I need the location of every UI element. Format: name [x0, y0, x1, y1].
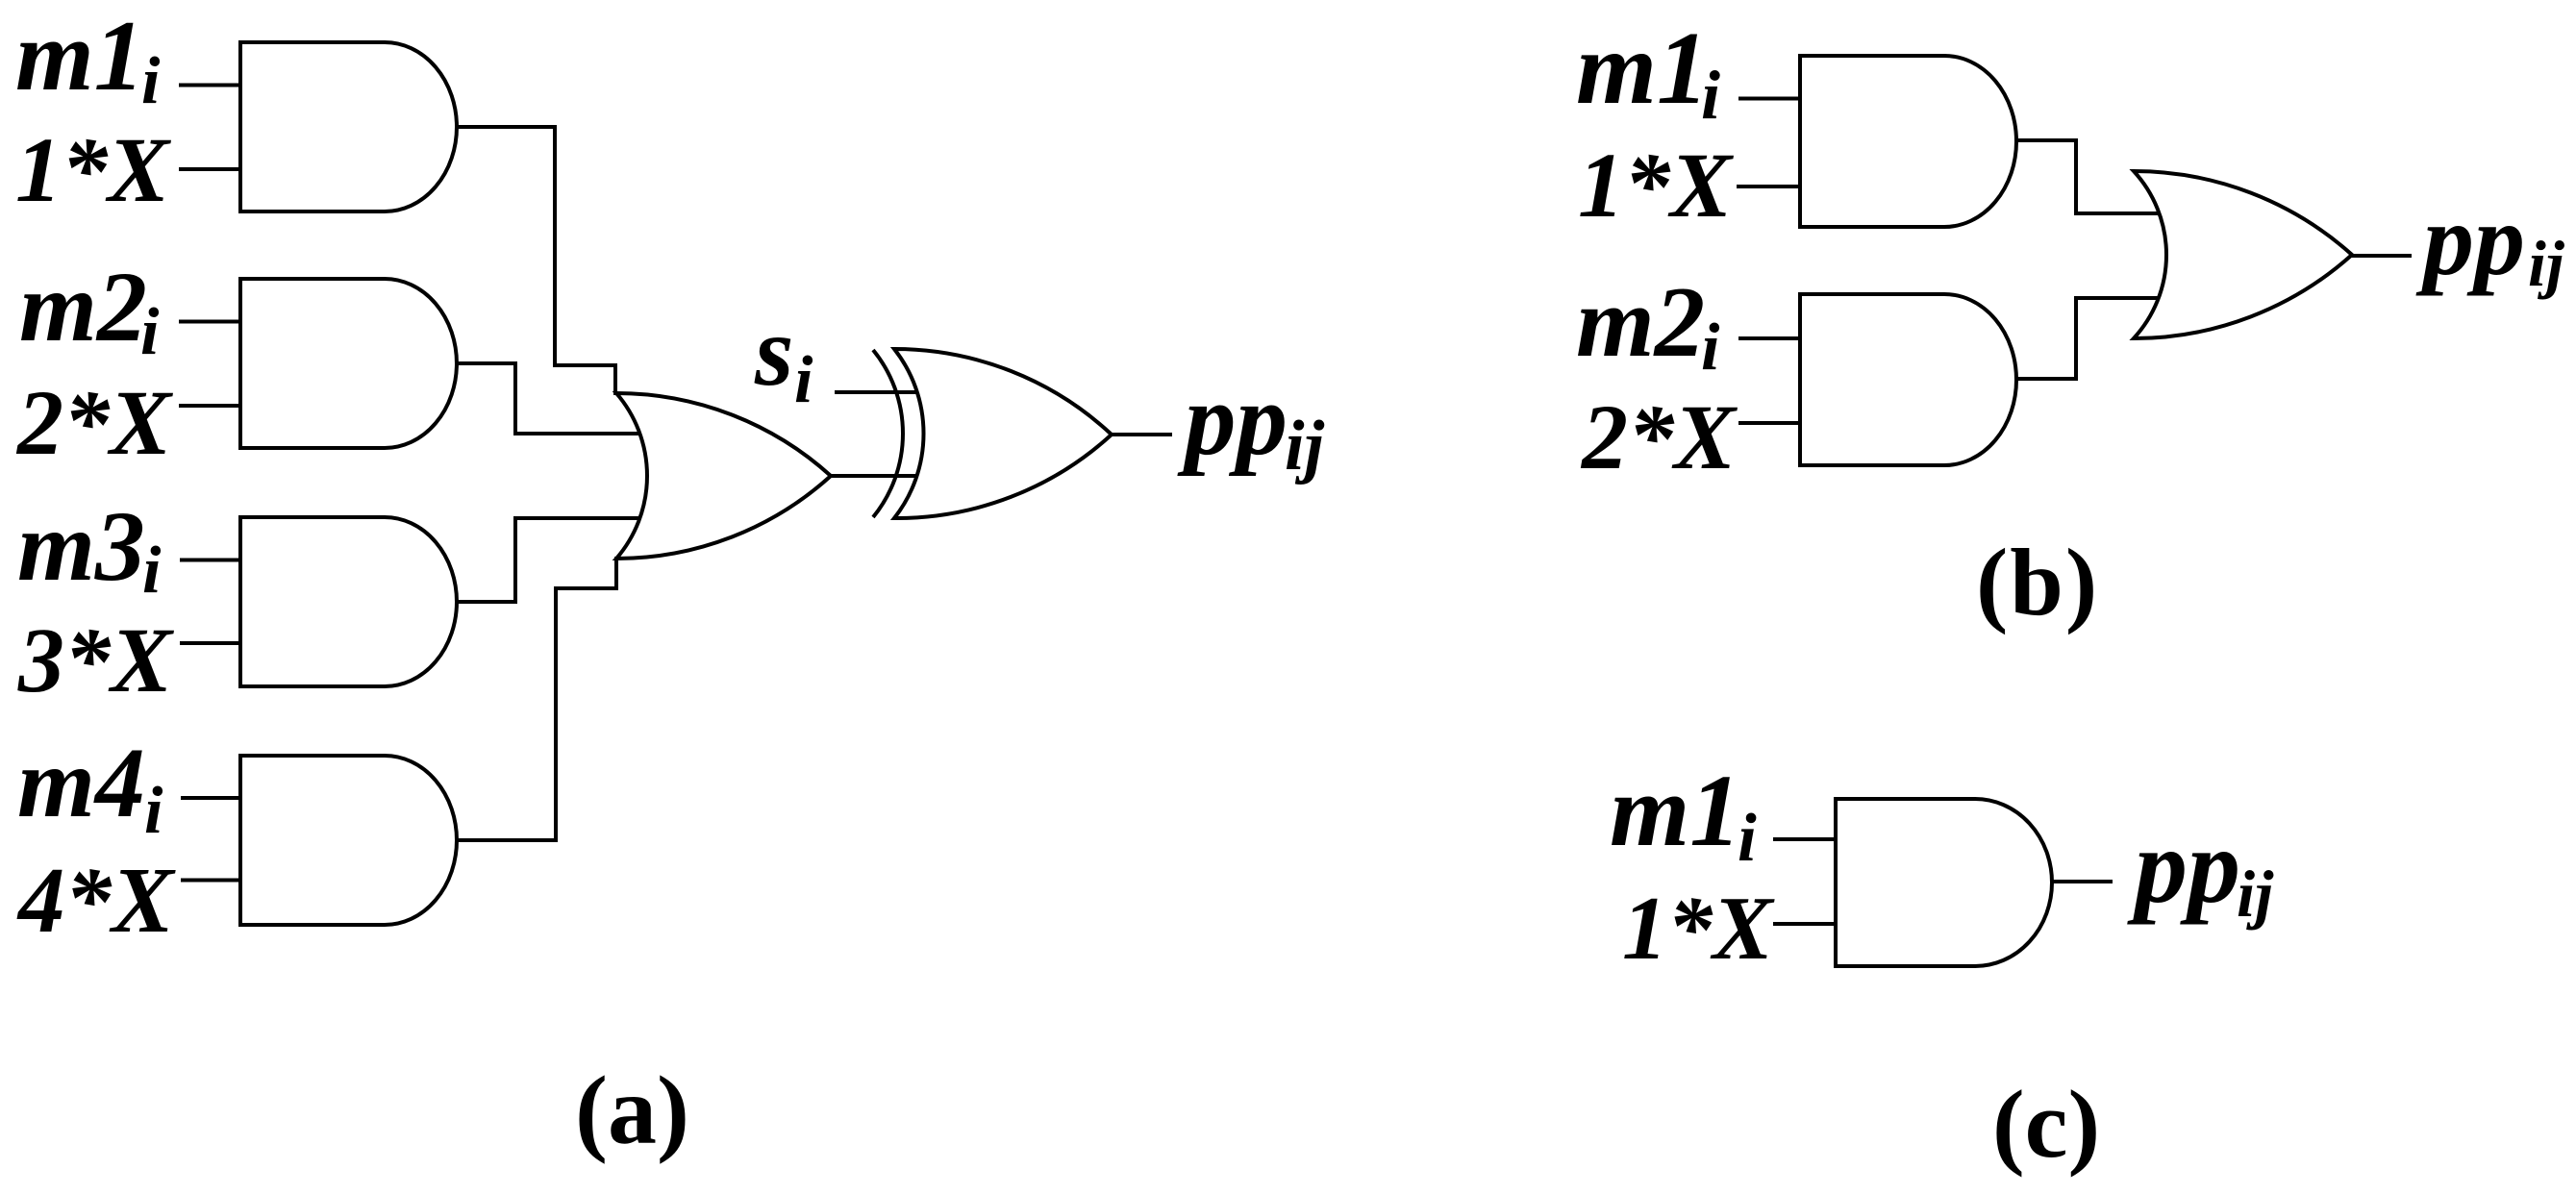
OR gate (b) [2134, 171, 2352, 338]
wire 1*X input (a) [179, 167, 242, 171]
svg-text:m1: m1 [1576, 12, 1709, 126]
wire XOR output pp_ij (a) [1110, 433, 1172, 436]
svg-text:ij: ij [2528, 227, 2565, 300]
AND gate 2 (b) [1800, 294, 2016, 465]
svg-text:m2: m2 [1576, 265, 1705, 378]
label pp_ij (c) [2127, 808, 2274, 931]
svg-text:1*X: 1*X [1578, 134, 1734, 236]
svg-text:pp: pp [2127, 808, 2240, 925]
svg-text:i: i [142, 534, 162, 608]
label m1_i (a) [15, 0, 161, 118]
wire m1_i input (c) [1773, 837, 1838, 841]
wire AND2 output to OR input (a) [455, 363, 646, 434]
wire 1*X input (c) [1773, 922, 1838, 926]
wire OR output to XOR input (a) [829, 474, 921, 478]
label m4_i (a) [17, 728, 163, 848]
label m1_i (b) [1576, 12, 1720, 134]
svg-text:1*X: 1*X [15, 118, 171, 221]
svg-text:(c): (c) [1992, 1070, 2100, 1178]
svg-text:(a): (a) [575, 1057, 689, 1165]
svg-text:ij: ij [2237, 858, 2274, 931]
wire m3_i input (a) [180, 559, 242, 562]
wire m2_i input (a) [179, 320, 242, 324]
svg-text:(b): (b) [1976, 529, 2099, 635]
wire AND1 output to OR input (b) [2015, 140, 2169, 213]
label m1_i (c) [1610, 755, 1757, 876]
label pp_ij (b) [2415, 184, 2565, 300]
XOR gate body (a) [894, 349, 1112, 518]
label m2_i (b) [1576, 265, 1720, 385]
AND gate 3 (a) [240, 517, 457, 686]
svg-text:i: i [1701, 311, 1720, 385]
AND gate 1 (b) [1800, 56, 2016, 227]
XOR gate extra input arc (a) [873, 350, 903, 517]
svg-text:m4: m4 [17, 728, 145, 838]
wire OR output pp_ij (b) [2350, 254, 2412, 258]
label m3_i (a) [17, 491, 162, 608]
svg-text:m3: m3 [17, 491, 145, 602]
wire m4_i input (a) [181, 796, 242, 800]
AND gate 1 (a) [240, 42, 457, 211]
svg-text:m1: m1 [1610, 755, 1741, 868]
OR gate (a) [616, 393, 831, 559]
svg-text:i: i [794, 343, 813, 417]
svg-text:i: i [144, 774, 163, 848]
wire m2_i input (b) [1738, 336, 1802, 340]
AND gate 4 (a) [240, 756, 457, 925]
label s_i (a) [754, 296, 813, 417]
wire m1_i input (b) [1738, 97, 1802, 101]
svg-text:1*X: 1*X [1622, 879, 1775, 979]
svg-text:i: i [141, 44, 161, 118]
AND gate (c) [1836, 799, 2052, 966]
svg-text:i: i [1738, 801, 1757, 876]
svg-text:ij: ij [1285, 407, 1325, 485]
svg-text:2*X: 2*X [1580, 386, 1738, 488]
wire 3*X input (a) [180, 641, 242, 645]
label pp_ij (a) [1177, 363, 1325, 485]
svg-text:m1: m1 [15, 0, 144, 112]
svg-text:i: i [1701, 57, 1720, 134]
label m2_i (a) [19, 252, 160, 369]
svg-text:m2: m2 [19, 252, 147, 362]
svg-text:4*X: 4*X [16, 849, 176, 952]
wire s_i input to XOR (a) [835, 390, 921, 394]
wire 1*X input (b) [1737, 185, 1802, 188]
wire 4*X input (a) [181, 879, 242, 883]
AND gate 2 (a) [240, 279, 457, 448]
svg-text:3*X: 3*X [17, 609, 174, 711]
wire AND4 output to OR input (a) [455, 557, 616, 840]
wire 2*X input (a) [179, 404, 242, 408]
wire 2*X input (b) [1738, 421, 1802, 425]
wire AND3 output to OR input (a) [455, 518, 646, 602]
wire AND output pp_ij (c) [2050, 880, 2113, 883]
svg-text:pp: pp [1177, 363, 1288, 477]
wire AND2 output to OR input (b) [2015, 298, 2169, 379]
svg-text:2*X: 2*X [15, 371, 173, 474]
svg-text:s: s [754, 296, 793, 407]
svg-text:i: i [140, 295, 160, 369]
wire m1_i input (a) [179, 84, 242, 87]
wire AND1 output to OR input (a) [455, 127, 615, 395]
svg-text:pp: pp [2415, 184, 2525, 296]
